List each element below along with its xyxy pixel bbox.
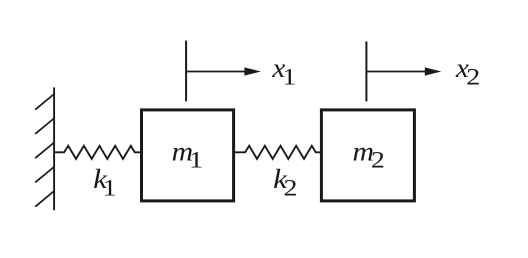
reference line 1 bbox=[185, 41, 187, 102]
svg-text:1: 1 bbox=[282, 64, 296, 89]
wall bbox=[53, 87, 55, 210]
spring k1 bbox=[54, 146, 140, 159]
svg-text:1: 1 bbox=[103, 175, 117, 200]
svg-text:2: 2 bbox=[466, 64, 480, 89]
arrow x1 shaft bbox=[187, 71, 246, 73]
reference line 2 bbox=[365, 41, 367, 101]
wall hatch 2 bbox=[35, 118, 54, 134]
wall hatch 3 bbox=[35, 143, 54, 159]
wall hatch 4 bbox=[35, 167, 54, 183]
spring k2 bbox=[235, 146, 320, 159]
mass m1 box bbox=[142, 110, 234, 201]
mass m2 box bbox=[321, 110, 414, 201]
wall hatch 1 bbox=[35, 94, 54, 110]
arrow x1 head bbox=[244, 67, 261, 75]
arrow x2 shaft bbox=[367, 71, 427, 73]
svg-text:2: 2 bbox=[284, 175, 298, 200]
svg-text:1: 1 bbox=[189, 147, 203, 172]
wall hatch 5 bbox=[35, 191, 54, 207]
svg-text:2: 2 bbox=[371, 147, 385, 172]
arrow x2 head bbox=[425, 67, 442, 75]
